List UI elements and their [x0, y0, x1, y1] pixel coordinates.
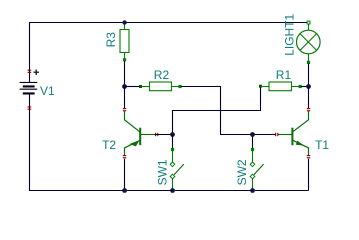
base pin ticks — [275, 133, 276, 136]
emitter arrow — [129, 140, 139, 146]
wire node A to R2 — [125, 86, 141, 88]
svg-text:R1: R1 — [276, 68, 292, 82]
plate short thick bottom — [23, 92, 35, 94]
terminal diamond lower — [170, 174, 175, 179]
plate short thick — [23, 85, 35, 87]
lamp LIGHT1 — [297, 21, 321, 64]
junction SW2 / bottom rail — [250, 188, 255, 193]
battery V1 — [20, 70, 39, 110]
terminal diamond upper — [170, 162, 175, 167]
node C junction — [170, 132, 175, 137]
emitter lead — [293, 140, 309, 155]
wire T1 emitter to bottom rail corner — [308, 159, 310, 191]
wire T2 emitter to bottom rail — [124, 159, 126, 191]
resistor R1 — [259, 82, 302, 91]
svg-text:R3: R3 — [104, 32, 118, 48]
resistor R2 — [139, 82, 182, 91]
wire R2 to T1 base (cross wire) — [181, 87, 275, 135]
node B junction — [306, 84, 311, 89]
wire R1 to node B — [301, 86, 309, 88]
collector wire from node B — [308, 87, 310, 109]
bottom pin square — [307, 61, 310, 64]
wire node C to SW1 — [172, 135, 174, 149]
svg-text:SW2: SW2 — [235, 159, 249, 185]
resistor R3 — [120, 23, 129, 62]
junction T2 emitter / bottom rail — [122, 188, 127, 193]
node D junction — [250, 132, 255, 137]
bar — [291, 128, 293, 146]
emitter pin ticks — [307, 155, 310, 156]
emitter arrow — [296, 141, 304, 146]
base pin ticks — [155, 133, 156, 136]
wire node C up and across to R1 (cross wire) — [173, 87, 261, 135]
collector lead — [293, 111, 309, 132]
collector pin ticks — [123, 108, 126, 109]
lever — [254, 164, 264, 175]
terminal diamond upper — [250, 162, 255, 167]
pin square — [251, 148, 254, 151]
collector wire from node A — [124, 87, 126, 109]
pin ticks top — [28, 70, 32, 71]
pin ticks bottom — [28, 106, 32, 107]
bar — [139, 128, 141, 146]
node A junction — [122, 84, 127, 89]
switch SW1 — [170, 135, 184, 191]
wire R3 to node A — [124, 61, 126, 87]
pin square — [171, 148, 174, 151]
plus sign — [34, 70, 40, 76]
switch SW2 — [250, 135, 263, 191]
svg-text:V1: V1 — [40, 84, 55, 98]
wire top rail — [29, 22, 307, 24]
svg-text:T1: T1 — [315, 138, 329, 152]
terminal diamond lower — [250, 174, 255, 179]
svg-text:T2: T2 — [102, 138, 116, 152]
plate long top — [20, 82, 38, 83]
collector pin ticks — [307, 108, 310, 109]
wire T2 base to node C — [155, 134, 173, 136]
svg-text:R2: R2 — [154, 68, 170, 82]
wire bottom rail — [29, 190, 309, 192]
lever — [174, 164, 184, 175]
plate long — [20, 89, 38, 90]
svg-text:LIGHT1: LIGHT1 — [283, 13, 297, 55]
base lead — [278, 134, 292, 136]
top pin open square — [307, 21, 310, 24]
transistor T2 — [123, 87, 159, 159]
base lead — [140, 134, 155, 136]
collector lead — [125, 111, 140, 132]
transistor T1 — [275, 87, 310, 159]
pin square — [123, 58, 126, 61]
wire left rail upper (battery V1 top lead) — [29, 23, 31, 83]
emitter pin ticks — [123, 155, 126, 156]
wire node D to SW2 — [252, 135, 254, 149]
svg-text:SW1: SW1 — [155, 159, 169, 185]
junction SW1 / bottom rail — [170, 188, 175, 193]
wire left rail lower (battery V1 bottom lead) — [29, 94, 31, 190]
wire lamp to node B — [308, 64, 310, 87]
node top rail junction — [122, 20, 126, 24]
emitter lead — [125, 140, 140, 155]
